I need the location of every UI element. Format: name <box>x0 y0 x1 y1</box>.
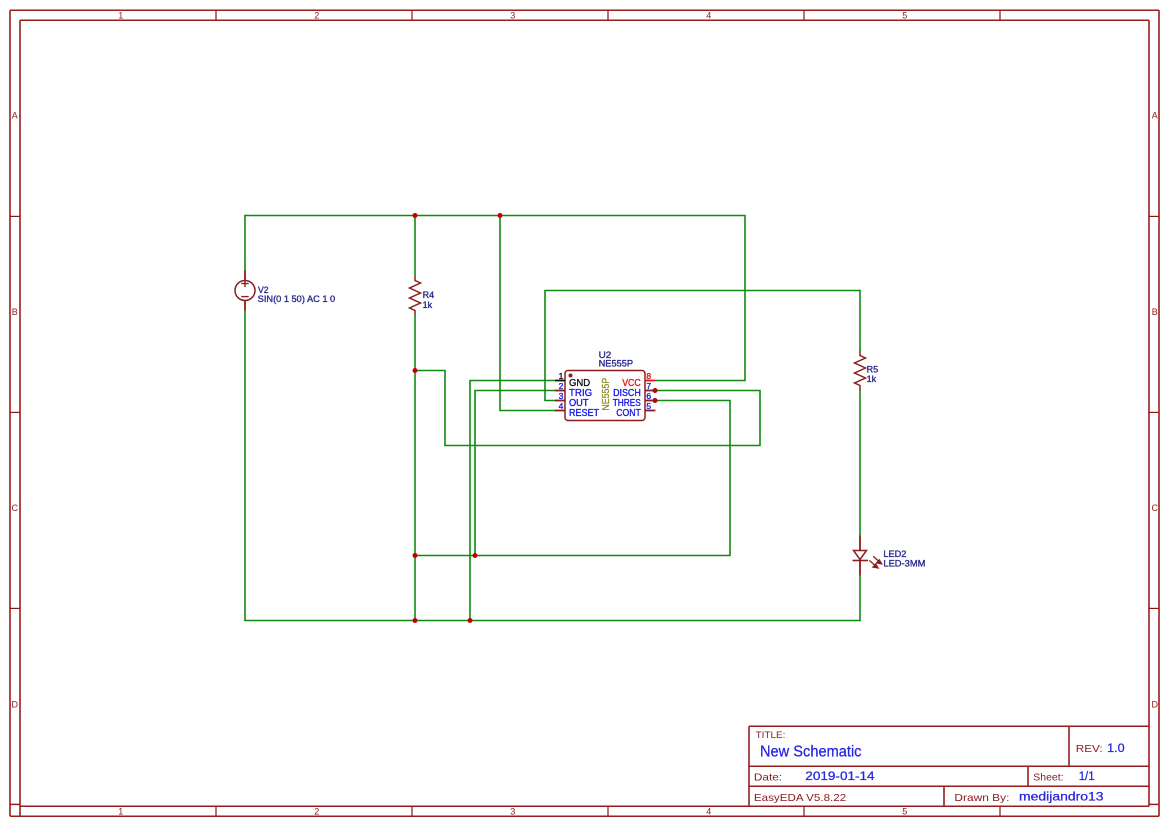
pin 6 THRES stub <box>645 400 655 402</box>
svg-text:2019-01-14: 2019-01-14 <box>805 771 875 783</box>
svg-text:TITLE:: TITLE: <box>756 730 786 741</box>
LED light arrows <box>869 556 881 568</box>
svg-text:5: 5 <box>646 401 651 411</box>
wire THRES pin6 return <box>415 401 730 556</box>
wire R4 top <box>414 216 416 276</box>
IC pin numbers <box>559 371 652 411</box>
svg-text:1: 1 <box>559 371 564 381</box>
wire TRIG pin2 <box>475 391 555 556</box>
svg-text:2: 2 <box>559 381 564 391</box>
svg-text:2: 2 <box>314 807 319 817</box>
svg-text:R5: R5 <box>867 364 879 374</box>
junction TRIG riser at THRES return <box>473 553 478 558</box>
svg-text:4: 4 <box>559 401 564 411</box>
junction R4 column to DISCH branch <box>413 368 418 373</box>
svg-text:medijandro13: medijandro13 <box>1019 792 1104 804</box>
wire GND pin1 <box>470 381 555 621</box>
svg-text:4: 4 <box>706 10 711 20</box>
svg-text:1.0: 1.0 <box>1107 743 1125 755</box>
wire R4 bottom <box>414 316 416 621</box>
svg-text:SIN(0 1 50) AC 1 0: SIN(0 1 50) AC 1 0 <box>258 294 336 304</box>
svg-text:3: 3 <box>510 10 515 20</box>
svg-text:1: 1 <box>118 10 123 20</box>
svg-text:Drawn By:: Drawn By: <box>954 792 1009 804</box>
svg-text:NE555P: NE555P <box>601 378 612 411</box>
svg-text:1/1: 1/1 <box>1079 771 1095 783</box>
wire RESET pin4 <box>500 216 555 411</box>
wire V2 bottom <box>244 311 246 622</box>
pin 8 VCC stub <box>645 380 655 382</box>
svg-text:B: B <box>12 307 18 317</box>
junction pin 6 THRES <box>653 398 658 403</box>
junction top rail at RESET riser <box>498 213 503 218</box>
label R4 <box>423 290 435 310</box>
svg-text:R4: R4 <box>423 290 435 300</box>
svg-text:7: 7 <box>646 381 651 391</box>
svg-text:B: B <box>1152 307 1158 317</box>
svg-text:1: 1 <box>118 807 123 817</box>
junction R4 column at THRES return <box>413 553 418 558</box>
wire V2 top <box>244 215 246 271</box>
svg-text:NE555P: NE555P <box>599 359 634 369</box>
wire R5 top lead <box>859 290 861 351</box>
pin 7 DISCH stub <box>645 390 655 392</box>
svg-text:C: C <box>12 503 19 513</box>
svg-text:3: 3 <box>559 391 564 401</box>
svg-text:6: 6 <box>646 391 651 401</box>
resistor R5 <box>855 351 866 391</box>
svg-text:Sheet:: Sheet: <box>1033 772 1063 784</box>
svg-text:New Schematic: New Schematic <box>760 744 862 761</box>
junction bottom rail at R4 column <box>413 618 418 623</box>
label LED2 <box>883 549 925 569</box>
junction top rail at R4 <box>413 213 418 218</box>
svg-text:RESET: RESET <box>569 408 600 419</box>
svg-text:Date:: Date: <box>754 772 782 784</box>
svg-text:D: D <box>1152 699 1159 709</box>
svg-text:REV:: REV: <box>1076 743 1103 755</box>
wire LED2 bottom <box>859 576 861 622</box>
IC pin names <box>569 378 641 419</box>
svg-text:D: D <box>12 699 19 709</box>
svg-text:3: 3 <box>510 807 515 817</box>
label U2 <box>599 350 634 369</box>
junction pin 7 DISCH <box>653 388 658 393</box>
svg-text:2: 2 <box>314 10 319 20</box>
svg-text:8: 8 <box>646 371 651 381</box>
wire OUT pin3 to R5 top <box>545 291 860 401</box>
wire top rail to pin8 VCC <box>245 216 745 381</box>
svg-text:1k: 1k <box>867 374 877 384</box>
label V2 <box>258 285 336 304</box>
pin 5 CONT stub <box>645 410 655 412</box>
svg-text:A: A <box>12 111 18 121</box>
LED LED2 <box>853 536 869 576</box>
svg-text:4: 4 <box>706 807 711 817</box>
wire R4 junction to DISCH pin7 <box>415 371 760 446</box>
junction bottom rail at GND riser <box>468 618 473 623</box>
wire R5 to LED2 <box>859 391 861 536</box>
svg-text:5: 5 <box>902 10 907 20</box>
svg-text:C: C <box>1152 503 1159 513</box>
svg-text:LED-3MM: LED-3MM <box>883 559 925 569</box>
svg-text:A: A <box>1152 111 1158 121</box>
pin 2 TRIG stub <box>555 390 565 392</box>
voltage source V2 <box>235 271 255 311</box>
label R5 <box>867 364 879 384</box>
IC U2 NE555P body <box>565 371 645 421</box>
wire bottom rail <box>245 620 860 622</box>
svg-text:LED2: LED2 <box>883 549 906 559</box>
svg-text:CONT: CONT <box>616 408 641 419</box>
pin 1 marker dot <box>569 374 573 378</box>
resistor R4 <box>410 276 421 316</box>
svg-text:5: 5 <box>902 807 907 817</box>
svg-text:EasyEDA V5.8.22: EasyEDA V5.8.22 <box>754 792 846 804</box>
svg-text:1k: 1k <box>423 300 433 310</box>
title block text <box>754 730 1103 804</box>
pin 3 OUT stub <box>555 400 565 402</box>
pin 4 RESET stub <box>555 410 565 412</box>
title block borders <box>749 726 1149 806</box>
pin 1 GND stub <box>555 380 565 382</box>
